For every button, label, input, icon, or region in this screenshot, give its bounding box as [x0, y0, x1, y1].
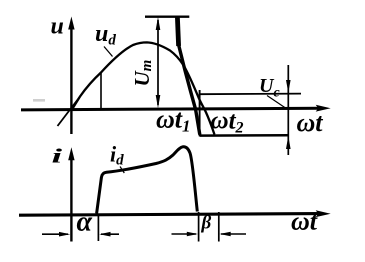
i axis (vertical): [68, 147, 74, 241]
conduction-start tick at x=101: [100, 73, 102, 110]
svg-text:ωt: ωt: [297, 108, 324, 137]
svg-text:ωt: ωt: [291, 207, 318, 236]
sinusoid u curve: [71, 42, 215, 134]
leader from i_d to curve: [120, 167, 124, 174]
Um cap line at peak: [145, 16, 189, 18]
vertical connector at omega-t2: [199, 90, 201, 136]
beta right tick: [218, 212, 220, 242]
leader line from u_d to curve: [104, 47, 113, 57]
u axis (vertical): [68, 17, 74, 135]
top x-axis (omega-t axis): [21, 105, 331, 112]
svg-text:α: α: [77, 207, 93, 238]
diode current pulse id: [97, 147, 198, 214]
beta dimension arrows: [172, 232, 247, 237]
alpha dimension arrows: [42, 232, 119, 237]
ud spike (thick): [177, 17, 199, 135]
Um dimension arrow (vertical double arrow): [156, 17, 161, 108]
sinusoid tail before origin: [58, 97, 81, 127]
svg-text:u: u: [51, 14, 64, 40]
beta left tick: [198, 212, 200, 242]
leader from Uc line to axis: [267, 96, 287, 110]
svg-text:i: i: [52, 145, 63, 167]
alpha right tick: [97, 214, 99, 241]
bottom x-axis: [19, 210, 331, 217]
ud floor line (-Uc): [200, 134, 289, 137]
Uc dimension arrows at x=288: [286, 65, 291, 155]
Uc level line: [200, 93, 301, 96]
faint scan smudge: [33, 99, 45, 102]
svg-text:β: β: [201, 213, 212, 234]
